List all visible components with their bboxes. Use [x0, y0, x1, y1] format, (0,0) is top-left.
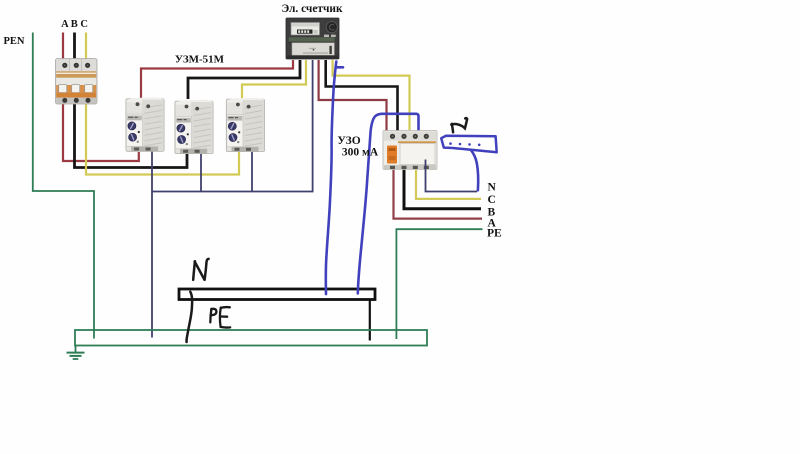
svg-text:PE: PE	[487, 228, 502, 240]
svg-text:300 мА: 300 мА	[342, 147, 379, 159]
svg-text:PEN: PEN	[4, 36, 25, 47]
svg-text:УЗО: УЗО	[337, 135, 360, 147]
svg-text:C: C	[488, 194, 496, 206]
svg-text:N: N	[488, 182, 497, 194]
svg-text:УЗМ-51М: УЗМ-51М	[175, 53, 225, 65]
svg-text:A B C: A B C	[61, 19, 88, 30]
svg-text:Эл. счетчик: Эл. счетчик	[281, 3, 343, 15]
